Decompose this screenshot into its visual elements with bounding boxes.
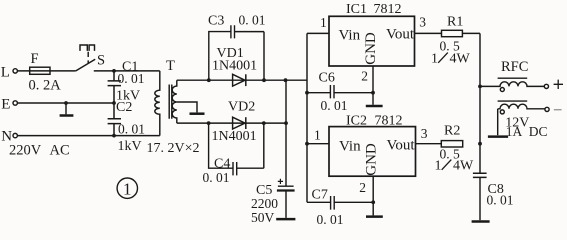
node output rail / R2 junction [478, 142, 482, 146]
wire input rail to regulators [306, 33, 308, 202]
node output rail / RFC junction [478, 85, 482, 89]
svg-text:C3: C3 [208, 14, 224, 29]
node N/C2 junction [112, 134, 116, 138]
svg-text:C7: C7 [312, 188, 328, 203]
inductor RFC (bottom) / label 12V 1A DC [498, 101, 548, 139]
resistor R1 0.5 1/4W [431, 15, 471, 67]
svg-text:Vin: Vin [339, 139, 361, 155]
svg-text:DC: DC [529, 124, 548, 139]
svg-text:Vout: Vout [387, 138, 416, 154]
svg-text:F: F [31, 51, 39, 67]
svg-text:3: 3 [419, 14, 426, 29]
svg-text:0. 01: 0. 01 [317, 212, 344, 226]
wire IC2 pin2 and ground [366, 176, 383, 216]
IC1 7812 [320, 2, 426, 83]
svg-text:3: 3 [421, 126, 428, 141]
svg-text:C6: C6 [319, 71, 335, 86]
capacitor C5 2200 50V [251, 179, 295, 225]
wire IC1 pin1 [307, 32, 329, 34]
svg-text:1kV: 1kV [118, 139, 142, 154]
svg-text:IC2: IC2 [346, 114, 367, 129]
svg-text:R1: R1 [447, 15, 463, 30]
svg-text:GND: GND [363, 32, 379, 65]
svg-text:R2: R2 [444, 124, 460, 139]
capacitor C6 0.01 [305, 71, 375, 114]
capacitor C8 0.01 [473, 173, 514, 220]
svg-text:GND: GND [363, 143, 379, 176]
wire IC1 pin2 and ground [366, 66, 383, 106]
svg-text:1: 1 [123, 180, 132, 199]
svg-text:1: 1 [435, 159, 442, 174]
svg-text:1: 1 [320, 15, 327, 30]
svg-text:1N4001: 1N4001 [212, 129, 257, 144]
switch S [76, 45, 105, 71]
node E ground junction [64, 101, 68, 105]
svg-text:0. 01: 0. 01 [203, 170, 230, 185]
node E/C2 junction [112, 101, 116, 105]
svg-text:Vout: Vout [386, 27, 415, 43]
terminal + output [544, 80, 563, 89]
node rectifier output B [284, 121, 288, 125]
wire secondary top to VD1 and node [177, 79, 307, 81]
earth ground on E line [60, 103, 74, 116]
terminal − output [545, 107, 562, 111]
svg-text:Vin: Vin [339, 28, 361, 44]
svg-text:C2: C2 [116, 100, 132, 115]
node rectifier output A [284, 78, 288, 82]
svg-text:0. 01: 0. 01 [487, 193, 514, 208]
svg-text:T: T [166, 58, 175, 74]
svg-text:4W: 4W [450, 52, 471, 67]
transformer T secondary winding 17.2V×2 [147, 80, 200, 156]
wire L input [17, 70, 75, 72]
terminal N [1, 128, 17, 144]
wire switch to transformer [94, 70, 160, 72]
svg-text:VD2: VD2 [228, 100, 255, 115]
wire rectifier output rail [285, 80, 287, 186]
svg-text:1: 1 [314, 127, 321, 142]
svg-text:4W: 4W [453, 159, 474, 174]
svg-text:1N4001: 1N4001 [212, 58, 257, 73]
figure number 1 [117, 178, 137, 199]
svg-text:7812: 7812 [375, 114, 403, 129]
wire secondary bottom to VD2 [177, 122, 286, 124]
node VD2 anode / C4 junction [207, 121, 211, 125]
svg-text:RFC: RFC [501, 59, 528, 75]
svg-text:L: L [1, 65, 10, 81]
svg-text:0. 2A: 0. 2A [29, 78, 62, 94]
wire IC1 pin3 [415, 32, 442, 34]
svg-text:IC1: IC1 [346, 2, 367, 17]
svg-text:220V: 220V [9, 143, 42, 159]
resistor R2 0.5 1/4W [435, 124, 475, 174]
svg-text:0. 01: 0. 01 [321, 98, 348, 113]
svg-text:0. 01: 0. 01 [118, 71, 145, 86]
capacitor C4 0.01 (across VD2) [203, 123, 264, 185]
svg-text:2200: 2200 [251, 196, 278, 211]
svg-text:AC: AC [50, 143, 70, 159]
node input rail / IC2 pin1 [305, 142, 309, 146]
wire center tap [177, 102, 197, 112]
wire R1 to output rail [462, 32, 480, 34]
ground (RFC return) [488, 135, 508, 138]
svg-text:1A: 1A [506, 124, 523, 139]
diode VD1 1N4001 [212, 46, 257, 86]
terminal L [1, 65, 18, 81]
svg-text:0. 01: 0. 01 [118, 122, 145, 137]
ground (C8) [472, 220, 490, 223]
transformer T primary winding [155, 58, 175, 136]
svg-text:0. 01: 0. 01 [239, 13, 266, 28]
capacitor C3 0.01 (across VD1) [208, 13, 266, 81]
transformer core [169, 85, 172, 119]
svg-text:E: E [1, 97, 10, 113]
svg-text:2: 2 [361, 68, 368, 83]
wire IC2 pin1 [307, 143, 329, 145]
inductor RFC (top) [480, 59, 544, 92]
svg-text:1: 1 [431, 52, 438, 67]
node L/C1 junction [112, 69, 116, 73]
terminal E [1, 97, 17, 113]
svg-text:50V: 50V [251, 210, 275, 225]
svg-text:17. 2V×2: 17. 2V×2 [147, 141, 200, 156]
wire N / label 220V AC [9, 136, 160, 159]
svg-text:7812: 7812 [374, 2, 402, 17]
wire E [17, 102, 114, 104]
ground (C5) [276, 218, 295, 221]
node VD2 cathode / C4 junction [262, 121, 266, 125]
diode VD2 1N4001 [212, 100, 257, 144]
capacitor C2 0.01 1kV [108, 100, 145, 154]
svg-text:2: 2 [359, 180, 366, 195]
node VD1 cathode / C3 junction [262, 78, 266, 82]
svg-text:S: S [97, 53, 105, 69]
capacitor C1 0.01 1kV [108, 60, 145, 104]
fuse F 0.2A [29, 51, 62, 94]
wire IC2 pin3 [416, 143, 442, 145]
capacitor C7 0.01 [307, 188, 375, 228]
ground (center tap) [190, 112, 205, 115]
wire output rail [479, 33, 481, 173]
IC2 7812 [314, 114, 428, 196]
